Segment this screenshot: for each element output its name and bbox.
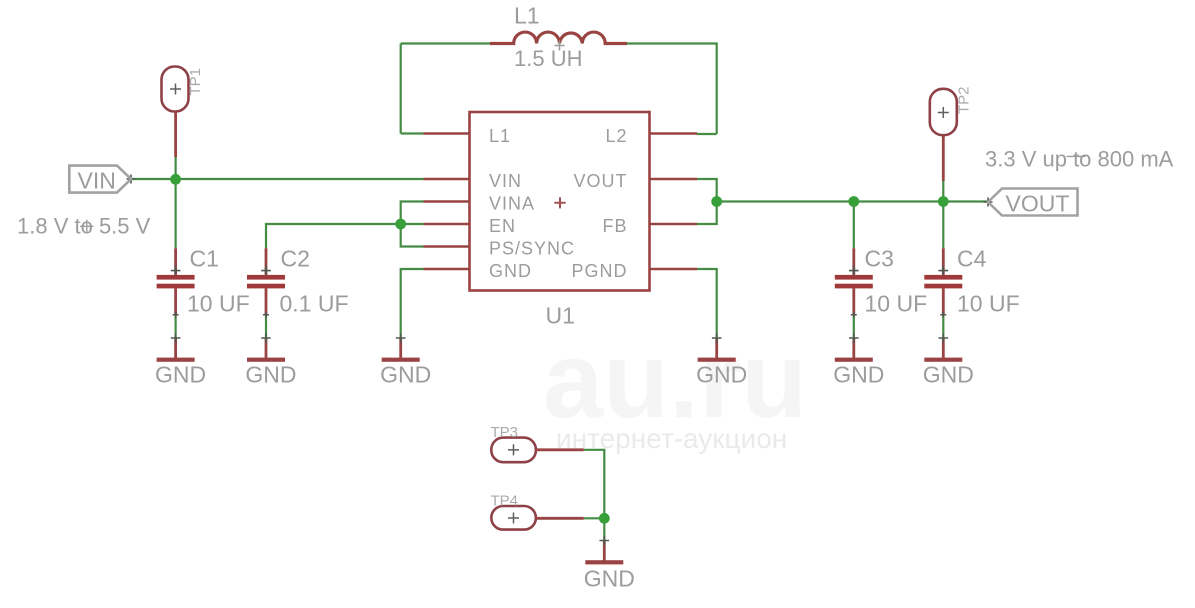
svg-text:VIN: VIN [489, 171, 522, 191]
svg-text:L1: L1 [489, 126, 511, 146]
svg-text:VOUT: VOUT [573, 171, 627, 191]
flag VIN [69, 166, 131, 194]
op-amp U1 box [470, 112, 650, 291]
flag VOUT [988, 189, 1078, 217]
junction C3 [848, 196, 859, 207]
svg-text:L2: L2 [605, 126, 627, 146]
junction C4 [938, 196, 949, 207]
inductor L1 [490, 32, 627, 43]
ground C1 [157, 338, 195, 362]
ground C3 [835, 338, 873, 362]
svg-text:GND: GND [155, 362, 206, 388]
L1 origin cross [555, 41, 565, 51]
U1 pin stubs right [650, 134, 698, 270]
junction TP4 [599, 513, 610, 524]
test point TP3 [491, 438, 584, 463]
capacitor C4 [924, 248, 962, 315]
wire C1 bottom to gnd [175, 315, 177, 338]
svg-text:10 UF: 10 UF [957, 291, 1020, 317]
pin cross C1 bottom [173, 312, 179, 318]
wire C3 bottom to gnd [853, 315, 855, 338]
pin cross gnd1 [171, 333, 181, 343]
pin cross C2 top [261, 266, 271, 276]
wire net TP3/TP4 [584, 450, 605, 541]
wire net VOUT [697, 179, 988, 248]
svg-text:au.ru: au.ru [543, 319, 807, 440]
pin cross gnd3 [396, 333, 406, 343]
pin cross C4 bottom [940, 312, 946, 318]
svg-text:C4: C4 [957, 246, 987, 272]
svg-text:TP2: TP2 [956, 86, 973, 114]
junction VOUT/FB [711, 196, 722, 207]
svg-text:L1: L1 [514, 3, 540, 29]
wire C4 bottom to gnd [942, 315, 944, 338]
ground U1 [382, 338, 420, 362]
svg-text:TP1: TP1 [187, 68, 204, 96]
pin cross VIN flag tip [127, 175, 136, 184]
wire net VINA/EN (C2 net) [266, 202, 424, 249]
test point TP2 [930, 89, 957, 181]
svg-text:GND: GND [696, 362, 747, 388]
svg-text:U1: U1 [546, 303, 575, 329]
svg-text:FB: FB [602, 216, 627, 236]
svg-text:EN: EN [489, 216, 516, 236]
svg-text:GND: GND [380, 362, 431, 388]
svg-text:1.5 UH: 1.5 UH [514, 46, 582, 71]
svg-text:TP3: TP3 [491, 424, 519, 441]
wire net PGND [697, 269, 717, 338]
pin cross gnd6 [939, 333, 949, 343]
pin cross C2 bottom [263, 312, 269, 318]
pin cross C3 top [849, 266, 859, 276]
pin cross VOUT flag tip [984, 198, 993, 207]
capacitor C3 [835, 248, 873, 315]
test point TP4 [491, 506, 584, 530]
svg-text:10 UF: 10 UF [865, 291, 928, 317]
wire net VIN [131, 157, 424, 248]
svg-text:VINA: VINA [489, 194, 535, 214]
wire C2 bottom to gnd [265, 315, 267, 338]
svg-text:PGND: PGND [571, 261, 627, 281]
pin cross C4 top [939, 266, 949, 276]
svg-text:0.1 UF: 0.1 UF [280, 291, 349, 317]
wire net L1 left (top-left loop) [401, 44, 490, 134]
svg-text:GND: GND [489, 261, 532, 281]
svg-text:TP4: TP4 [491, 493, 519, 510]
svg-text:C3: C3 [865, 246, 894, 272]
ground C4 [924, 338, 962, 362]
svg-text:GND: GND [833, 362, 884, 388]
wire net GND of U1 [401, 269, 424, 338]
U1 pin stubs left [424, 134, 470, 270]
pin cross gnd7 [600, 536, 610, 546]
svg-text:C1: C1 [190, 246, 219, 272]
pin cross gnd2 [261, 333, 271, 343]
svg-text:VOUT: VOUT [1006, 191, 1070, 217]
svg-text:PS/SYNC: PS/SYNC [489, 239, 575, 259]
pin cross gnd5 [849, 333, 859, 343]
ground C2 [247, 338, 285, 362]
svg-text:GND: GND [245, 362, 296, 388]
ground PGND [698, 338, 736, 362]
pin cross gnd4 [712, 333, 722, 343]
ground TP [585, 541, 623, 565]
junction VIN [170, 174, 181, 185]
pin cross C1 top [171, 266, 181, 276]
svg-text:3.3 V up to 800 mA: 3.3 V up to 800 mA [985, 147, 1174, 172]
svg-text:GND: GND [923, 362, 974, 388]
junction EN [395, 219, 406, 230]
capacitor C1 [157, 248, 195, 315]
svg-text:VIN: VIN [78, 168, 116, 194]
test point TP1 [162, 67, 189, 158]
capacitor C2 [247, 248, 285, 315]
pin cross C3 bottom [851, 312, 857, 318]
svg-text:GND: GND [584, 566, 635, 592]
svg-text:C2: C2 [281, 246, 310, 272]
U1 origin cross [554, 197, 565, 208]
svg-text:10 UF: 10 UF [187, 291, 250, 317]
wire net SW (top-right loop) [627, 44, 717, 135]
